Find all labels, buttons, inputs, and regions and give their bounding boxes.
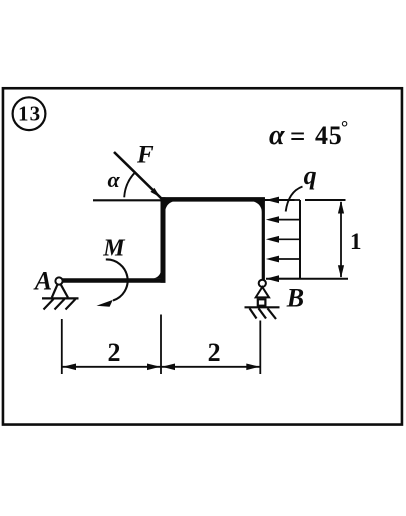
support A hatch 1 xyxy=(44,299,54,310)
svg-text:B: B xyxy=(286,283,304,312)
problem number circle 13 xyxy=(13,97,46,130)
dimension 1 vertical line xyxy=(340,202,342,277)
support A right leg xyxy=(61,284,68,297)
distributed load right boundary line xyxy=(299,200,301,279)
load arrow 4 xyxy=(270,258,300,260)
fillet at bottom-left frame corner xyxy=(154,271,162,279)
angle alpha arc xyxy=(124,172,135,197)
svg-text:°: ° xyxy=(341,117,348,137)
svg-text:45: 45 xyxy=(315,121,343,150)
svg-text:F: F xyxy=(136,142,154,169)
support B hatch 2 xyxy=(259,308,267,318)
svg-text:13: 13 xyxy=(18,102,41,126)
support A hatch 2 xyxy=(55,299,65,310)
support B hatch 3 xyxy=(268,308,277,319)
label alpha = 45 deg xyxy=(269,117,348,151)
support B triangle xyxy=(256,287,269,297)
distributed load top edge segment xyxy=(265,199,295,201)
leader line for q xyxy=(286,187,303,212)
support B roller block xyxy=(258,299,266,305)
load arrow 1 xyxy=(270,199,300,201)
fillet at top-right frame corner xyxy=(252,201,262,212)
force F arrowhead xyxy=(150,188,160,198)
bottom dimension line xyxy=(62,366,260,368)
fillet at top-left frame corner xyxy=(165,201,175,212)
svg-text:2: 2 xyxy=(108,338,121,367)
frame left vertical member xyxy=(161,197,166,283)
moment M arc xyxy=(106,259,128,300)
svg-text:=: = xyxy=(290,121,305,151)
dimension 1 top arrowhead xyxy=(338,201,344,214)
svg-text:M: M xyxy=(102,236,126,262)
frame right vertical member xyxy=(262,198,265,282)
load arrow 2 xyxy=(270,219,300,221)
frame bottom member xyxy=(62,278,166,283)
moment M arrowhead xyxy=(97,300,113,307)
dimension 1 bottom arrowhead xyxy=(338,265,344,278)
support B pin circle xyxy=(259,280,266,287)
bottom dimension arrowhead mid left xyxy=(147,364,160,371)
support A ground line xyxy=(42,297,79,299)
bottom dimension arrowhead mid right xyxy=(162,364,175,371)
svg-text:A: A xyxy=(33,266,52,295)
frame top member xyxy=(160,197,265,202)
load arrow 3 xyxy=(270,238,300,240)
border frame of problem box xyxy=(3,88,402,424)
support A hatch 3 xyxy=(66,299,76,310)
svg-text:q: q xyxy=(304,161,317,190)
bottom dimension right extension line xyxy=(259,321,261,375)
svg-text:α: α xyxy=(269,120,285,151)
support A pin circle xyxy=(55,277,62,284)
support B hatch 1 xyxy=(250,308,257,318)
dimension 1 top extension line xyxy=(305,199,346,201)
bottom dimension arrowhead far right xyxy=(246,364,259,371)
svg-text:α: α xyxy=(108,167,121,192)
load arrow 5 xyxy=(270,278,300,280)
bottom dimension arrowhead far left xyxy=(63,364,76,371)
svg-text:1: 1 xyxy=(350,229,362,254)
thin reference line at top-left corner node xyxy=(93,199,163,201)
force F line xyxy=(114,152,164,201)
support A left leg xyxy=(52,284,58,297)
bottom dimension left extension line xyxy=(61,319,63,374)
svg-text:2: 2 xyxy=(208,338,221,367)
bottom dimension middle extension line xyxy=(160,315,162,375)
distributed load bottom edge and extension line xyxy=(266,278,348,280)
support B ground line xyxy=(245,306,280,308)
